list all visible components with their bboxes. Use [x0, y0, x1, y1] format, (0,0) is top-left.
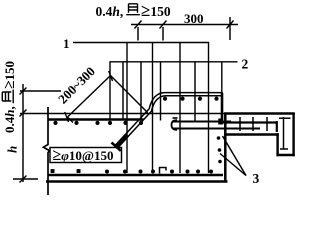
rebar 1 leg x=127: [126, 43, 128, 174]
dim tick upper on D: [109, 71, 113, 81]
tick at x=162: [160, 21, 167, 29]
beam right edge: [224, 113, 227, 183]
right arm inner left edge: [276, 133, 278, 156]
top dimension line: [131, 24, 238, 26]
svg-text:2: 2: [242, 57, 249, 72]
bottom bar squares: [51, 169, 55, 173]
leader line to 3 upper: [223, 136, 247, 176]
extension line y=91: [20, 90, 61, 92]
rebar 2 right end leg: [221, 62, 223, 94]
svg-text:≥150: ≥150: [141, 1, 171, 20]
dip bar bottom tick: [280, 148, 288, 150]
extension line x=162: [162, 27, 164, 41]
arm stirrup dash x=240: [239, 117, 241, 131]
svg-text:3: 3: [253, 171, 260, 186]
rebar 2 leg x=160.5: [160, 62, 162, 121]
beam top outline: [20, 113, 225, 115]
arm stirrup dash x=267: [266, 117, 268, 131]
right arm outline right edge: [292, 113, 294, 156]
bar anchor blob: [218, 119, 223, 125]
bent bar right downturn: [221, 93, 224, 123]
glyph qie rotated: [2, 90, 13, 104]
svg-text:1: 1: [63, 36, 70, 51]
beam bottom outline: [46, 180, 228, 183]
bottom bar dots: [105, 170, 109, 174]
bent bar spacing extension L2: [111, 76, 148, 113]
beam top rebar thick line: [48, 118, 144, 121]
svg-text:0.4h,: 0.4h,: [96, 4, 124, 19]
double line bar dots: [163, 97, 167, 101]
tick at x=229: [227, 21, 234, 29]
beam hooked bar lower: [173, 128, 260, 130]
bent bar diagonal upper line: [115, 93, 223, 146]
rebar 1 leg x=152.5: [152, 43, 154, 174]
stirrup hook mark near bottom: [160, 168, 167, 174]
rebar 1 leg x=181.5: [179, 43, 181, 174]
beam hooked bar U-bend: [172, 120, 178, 130]
svg-text:≥150: ≥150: [1, 61, 18, 89]
glyph qie: [126, 4, 140, 15]
svg-text:300: 300: [184, 11, 204, 26]
bent bar hook tick: [112, 143, 121, 151]
left vertical dimension line: [22, 84, 24, 182]
dip bar top tick: [279, 117, 291, 119]
arm top bar hook down: [276, 121, 278, 132]
extension line y=179: [13, 178, 38, 180]
dim tick lower on D: [65, 112, 69, 122]
right arm inner bottom edge: [225, 133, 279, 135]
rebar 1 top horizontal: [73, 43, 209, 174]
leader line to 3 lower: [220, 154, 246, 176]
bent bar spacing extension L1: [68, 117, 74, 123]
tick at x=138: [135, 21, 142, 29]
right edge stirrup hook dots: [217, 136, 221, 140]
label 0.4h top dimension text: [1, 1, 260, 186]
svg-text:≥φ10@150: ≥φ10@150: [53, 147, 114, 164]
break line left edge: [43, 107, 49, 195]
tick at y=91: [20, 88, 27, 95]
rebar 2 leg x=123: [122, 62, 124, 121]
extension line x=138: [137, 27, 139, 41]
bent bar diagonal lower line: [117, 96, 221, 149]
rebar 2 horizontal with end bend: [110, 62, 238, 121]
bent bar end solid tip: [116, 135, 127, 147]
right arm outline bottom: [276, 154, 294, 156]
extension line x=229: [229, 17, 231, 40]
tick at y=113: [20, 110, 27, 117]
right arm outline top: [224, 112, 295, 114]
rebar 2 leg x=195: [194, 62, 196, 121]
annotation box: [50, 148, 122, 163]
beam hooked bar serif: [173, 117, 178, 119]
tick at y=179: [20, 176, 27, 183]
dip bar vertical: [283, 117, 285, 150]
arm top bar thick: [222, 121, 277, 123]
svg-text:h: h: [5, 146, 20, 153]
bent bar spacing dim line D: [68, 76, 111, 118]
rotated left dimension text 0.4h: [1, 61, 18, 133]
beam bottom rebar thick line: [48, 174, 223, 177]
top rebar dots: [53, 121, 57, 125]
rebar 2 leg x=141: [140, 62, 142, 121]
beam hooked bar upper: [173, 121, 231, 123]
svg-text:0.4h,: 0.4h,: [2, 106, 17, 133]
arm stirrup dash x=253: [252, 117, 254, 131]
